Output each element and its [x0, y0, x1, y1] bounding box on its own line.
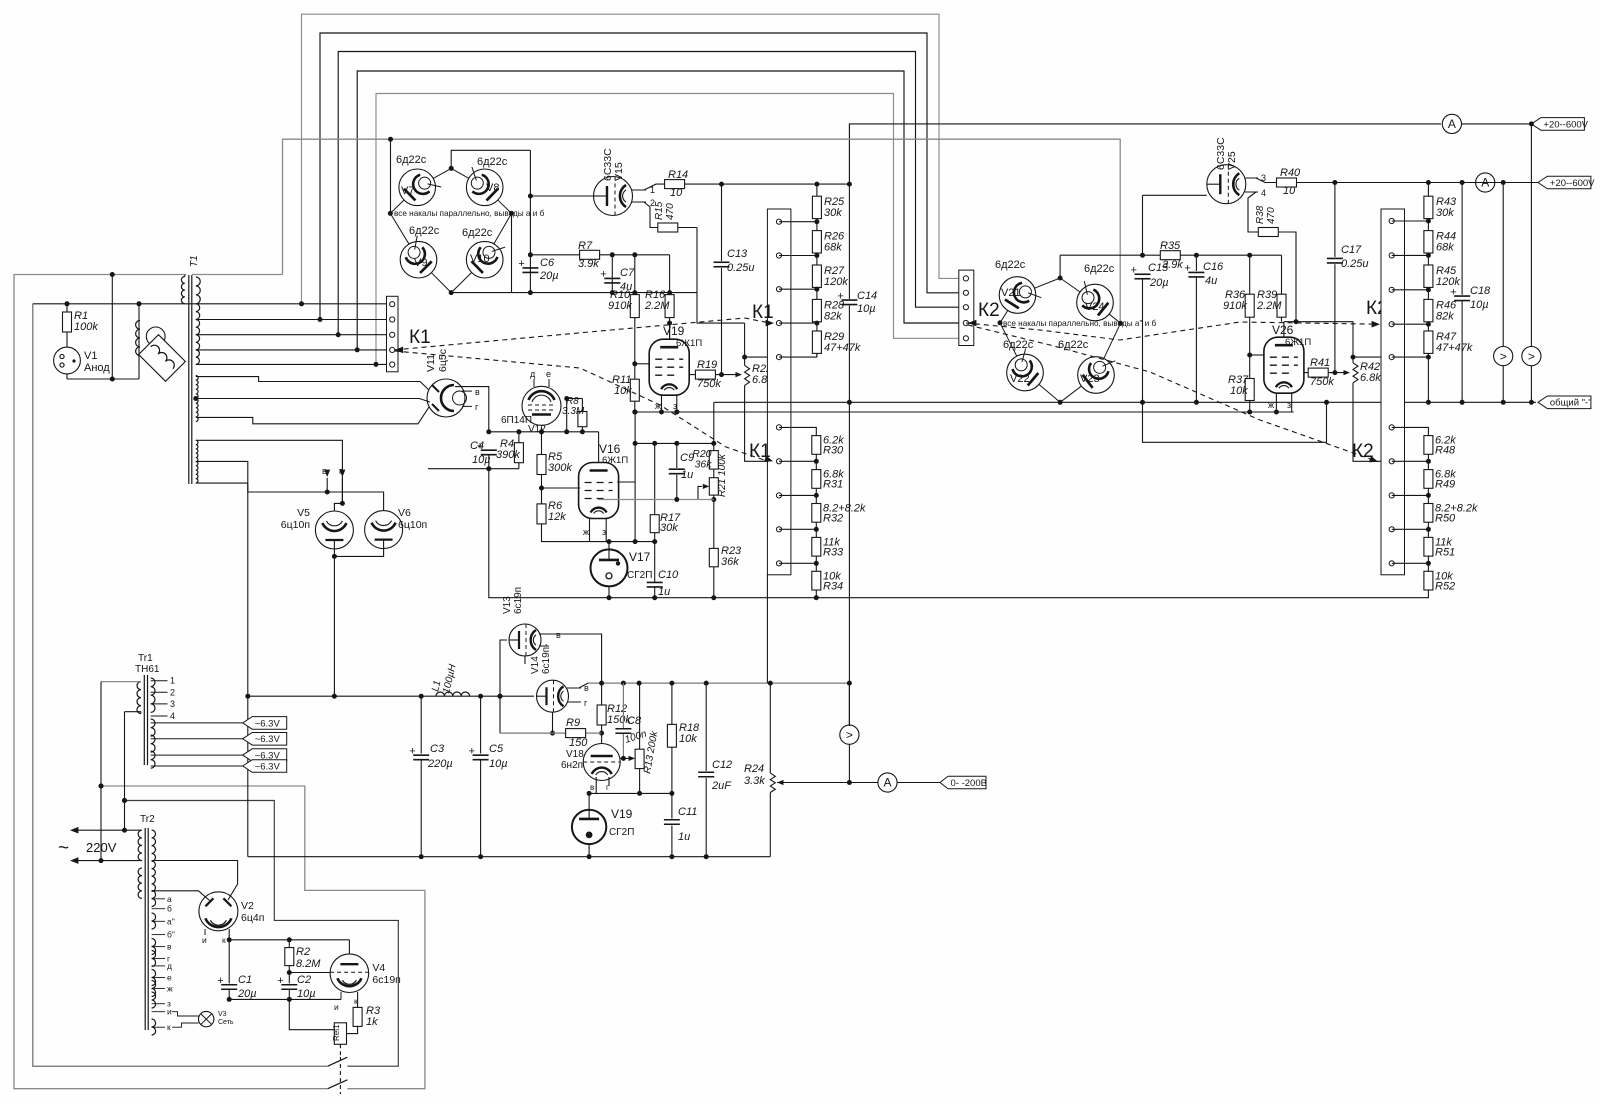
svg-text:>: > — [846, 728, 853, 742]
svg-text:>: > — [1528, 349, 1535, 363]
svg-text:8.2M: 8.2M — [296, 958, 321, 970]
label K2 lower — [1352, 441, 1374, 462]
svg-text:20µ: 20µ — [1149, 277, 1169, 289]
wire main bus 683 — [588, 681, 852, 686]
svg-text:6д22с: 6д22с — [995, 259, 1026, 271]
wire V15 cathode to R15 — [644, 202, 658, 228]
resistor R23 — [709, 545, 742, 600]
svg-text:R9: R9 — [566, 717, 580, 729]
resistor R10 — [608, 255, 639, 379]
wire V1 column — [99, 682, 104, 864]
wire V17 bottom — [607, 586, 612, 600]
wire ladder R25 top — [816, 184, 818, 196]
svg-text:+20--600V: +20--600V — [1550, 178, 1595, 189]
wire Tr1 tap 4 — [151, 711, 175, 721]
terminal strip K1 left — [387, 296, 399, 372]
node grid rail junction — [388, 137, 393, 214]
wire B+ rail to +20--600V — [849, 124, 1531, 184]
winding tap а — [152, 894, 172, 904]
wire Tr1 left drop — [122, 712, 127, 833]
svg-text:V15: V15 — [613, 162, 625, 181]
svg-text:C16: C16 — [1203, 261, 1224, 273]
svg-text:к: к — [167, 1022, 171, 1032]
svg-text:з: з — [673, 401, 677, 411]
resistor R5 — [537, 432, 572, 504]
winding tap б" — [152, 930, 175, 940]
node R34 bottom — [814, 595, 819, 600]
wire V16 pins — [583, 519, 609, 542]
wire K1 tap 3 — [779, 287, 819, 292]
svg-text:к: к — [354, 996, 358, 1006]
svg-text:V13: V13 — [502, 596, 513, 614]
svg-text:V5: V5 — [297, 507, 310, 519]
label K1 middle — [752, 302, 774, 323]
svg-text:T1: T1 — [189, 255, 200, 267]
flag +20-600V top — [1529, 118, 1589, 131]
winding tap е — [152, 973, 172, 983]
wire Tr1 tap 1 — [151, 676, 175, 686]
tube V6 — [365, 507, 428, 549]
wire heater rail 2 — [320, 33, 960, 320]
resistor R52 — [1424, 570, 1455, 597]
svg-text:A: A — [1481, 176, 1489, 190]
wire V16 top — [598, 432, 600, 463]
capacitor C8 — [615, 683, 648, 761]
wire lower bus — [248, 856, 771, 858]
wire V25 grid — [1140, 195, 1207, 257]
svg-text:Анод: Анод — [84, 362, 110, 374]
wire T1 lower tap b — [196, 461, 327, 492]
resistor R1 — [63, 304, 99, 348]
resistor R2 — [285, 940, 321, 984]
dashed relay K1 links — [395, 318, 774, 462]
svg-text:V18: V18 — [566, 749, 584, 760]
wire R14 out — [685, 182, 852, 187]
wire V15 grid — [528, 194, 594, 199]
svg-text:б": б" — [167, 930, 175, 940]
winding tap д — [152, 961, 172, 971]
capacitor C5 — [469, 694, 508, 860]
wire K2 lower tap 2 — [1392, 459, 1431, 464]
svg-text:4: 4 — [170, 711, 175, 721]
potentiometer R13 — [620, 729, 660, 774]
wire V2 cathode rail — [229, 937, 349, 954]
wire T1 tap 2 to K1 — [196, 317, 387, 322]
svg-text:10µ: 10µ — [857, 303, 876, 315]
svg-text:C4: C4 — [470, 440, 484, 452]
wire T1 tap 4 to K1 — [196, 347, 387, 352]
wire V5V6 tops — [322, 466, 384, 511]
wire V11 pins — [462, 387, 480, 412]
svg-text:ж: ж — [655, 401, 661, 411]
transformer T1 lower winding — [196, 440, 198, 483]
wire grid rail — [283, 139, 1121, 323]
capacitor C12 — [698, 683, 732, 859]
svg-text:в: в — [590, 783, 594, 792]
diode V10 — [462, 227, 505, 278]
svg-text:10k: 10k — [679, 733, 697, 745]
svg-text:C1: C1 — [238, 974, 252, 986]
resistor R39 — [1256, 255, 1286, 322]
wire V25 cathode to R38 — [1248, 192, 1258, 232]
svg-text:1u: 1u — [678, 831, 690, 843]
svg-text:+: + — [1184, 263, 1190, 275]
wire C15 bypass — [1143, 400, 1330, 443]
svg-text:C2: C2 — [297, 974, 311, 986]
resistor R35 — [1060, 240, 1281, 271]
wire V19 pins — [655, 395, 679, 415]
resistor R17 — [650, 441, 681, 542]
wire R13 top — [639, 683, 641, 749]
svg-text:6с19п: 6с19п — [372, 974, 400, 986]
wire ladder R43 top — [1427, 183, 1429, 197]
diode V23 — [1058, 339, 1115, 393]
svg-text:R2: R2 — [296, 946, 310, 958]
wire heater rail 1 — [302, 14, 960, 304]
resistor R18 — [667, 683, 700, 793]
svg-text:~: ~ — [58, 838, 69, 859]
svg-text:R14: R14 — [668, 169, 688, 181]
wire bridge top feed — [449, 150, 531, 171]
svg-text:6д22с: 6д22с — [1003, 339, 1034, 351]
wire K2 tap 4 — [1392, 322, 1431, 327]
resistor R45 — [1424, 265, 1460, 324]
svg-text:в: в — [167, 942, 172, 952]
winding tap з — [152, 999, 171, 1009]
svg-text:10: 10 — [1283, 185, 1296, 197]
wire V19 top — [669, 323, 671, 339]
tube V18 — [561, 733, 620, 780]
svg-text:10µ: 10µ — [297, 988, 316, 1000]
wire K1 row5 to R22 — [745, 356, 779, 358]
svg-text:R33: R33 — [823, 546, 844, 558]
svg-text:3.3k: 3.3k — [744, 775, 765, 787]
meter A1 — [1442, 114, 1461, 133]
lamp V3 — [199, 1011, 234, 1027]
svg-text:6ц10п: 6ц10п — [281, 519, 310, 531]
svg-text:C12: C12 — [712, 759, 732, 771]
wire V26 pins — [1268, 393, 1292, 412]
svg-text:R48: R48 — [1435, 445, 1456, 457]
capacitor C15 — [1131, 262, 1170, 402]
flag heater 2 — [151, 733, 287, 746]
wire right bridge top — [1059, 255, 1061, 278]
svg-text:36k: 36k — [721, 556, 739, 568]
svg-text:68k: 68k — [1436, 242, 1454, 254]
svg-text:V23: V23 — [1080, 373, 1100, 385]
tube V14 — [530, 644, 569, 736]
svg-text:910k: 910k — [1223, 300, 1247, 312]
svg-text:Сеть: Сеть — [218, 1019, 234, 1026]
wire screen bus — [635, 441, 716, 446]
rheostat R42 — [1294, 319, 1382, 461]
resistor R4 — [496, 432, 523, 463]
svg-text:47+47k: 47+47k — [824, 342, 861, 354]
wire L1 rail — [245, 694, 534, 699]
svg-text:+: + — [469, 745, 475, 757]
label bridge note — [394, 209, 545, 218]
wire R38 to V26 top — [1278, 232, 1296, 337]
tube V15 — [594, 148, 633, 216]
wire V11 to V12 — [455, 387, 489, 432]
transformer Tr1 heater windings — [151, 719, 155, 768]
svg-text:6д22с: 6д22с — [477, 156, 508, 168]
svg-text:V1: V1 — [84, 350, 97, 362]
svg-text:10k: 10k — [1230, 385, 1248, 397]
resistor R40 — [1277, 167, 1302, 197]
terminal strip K1 middle — [767, 209, 791, 575]
node bridge heater corners — [388, 211, 514, 295]
flag heater 4 — [151, 760, 287, 773]
svg-text:750k: 750k — [697, 378, 721, 390]
resistor R44 — [1424, 231, 1456, 290]
wire K1 tap 2 — [779, 253, 819, 258]
svg-text:а: а — [167, 894, 172, 904]
resistor R31 — [812, 469, 844, 504]
svg-text:910k: 910k — [608, 300, 632, 312]
wire V13 grid — [498, 640, 508, 733]
svg-text:6д22с: 6д22с — [396, 154, 427, 166]
resistor R47 — [1424, 331, 1473, 354]
capacitor C16 — [1184, 255, 1224, 405]
svg-text:6д22с: 6д22с — [409, 225, 440, 237]
resistor R51 — [1424, 536, 1455, 571]
svg-text:V24: V24 — [1085, 301, 1105, 313]
winding tap ж — [152, 983, 173, 993]
wire meter drops — [1503, 124, 1531, 402]
svg-text:Tr2: Tr2 — [140, 814, 155, 825]
svg-text:+: + — [600, 269, 606, 281]
wire heater rail 4 — [357, 71, 959, 350]
svg-text:6ц5с: 6ц5с — [437, 349, 449, 372]
resistor R38 — [1255, 205, 1278, 236]
svg-text:+: + — [1131, 265, 1137, 277]
svg-text:10: 10 — [670, 187, 683, 199]
wire V2 pins — [202, 929, 232, 945]
svg-text:~6.3V: ~6.3V — [255, 734, 281, 745]
wire K1 lower tap 4 — [779, 527, 819, 532]
node right bridge corners — [998, 276, 1124, 326]
svg-text:е: е — [546, 369, 551, 379]
capacitor C13 — [714, 184, 755, 375]
wire bridge diagonals — [390, 168, 511, 292]
wire R29 bottom to K1 — [779, 353, 817, 357]
tube V2 — [199, 892, 264, 931]
svg-text:4: 4 — [1261, 188, 1266, 198]
svg-text:6.8k: 6.8k — [1360, 372, 1381, 384]
tube V4 — [330, 954, 401, 993]
wire bridge right heater drop — [511, 213, 513, 292]
svg-text:0.25u: 0.25u — [727, 262, 755, 274]
svg-text:390k: 390k — [496, 449, 520, 461]
label K2 mid — [1366, 298, 1388, 319]
wire K2 lower tap 4 — [1392, 527, 1431, 532]
svg-text:470: 470 — [665, 203, 676, 220]
wire lamp V3 circuit — [172, 1012, 199, 1027]
wire T1 tap 5 to K1 — [196, 362, 387, 367]
svg-text:120k: 120k — [824, 276, 848, 288]
wire K1 lower tap 5 — [779, 561, 819, 566]
svg-text:V2: V2 — [241, 900, 254, 912]
tube V25 — [1207, 137, 1246, 204]
svg-text:Rel1: Rel1 — [332, 1024, 341, 1041]
wire inner relay loop — [33, 304, 399, 1066]
transformer T1 core — [189, 255, 200, 484]
svg-text:+: + — [277, 975, 283, 987]
svg-text:6д22с: 6д22с — [1058, 339, 1089, 351]
svg-text:C15: C15 — [1148, 262, 1169, 274]
wire outer mains loop — [14, 275, 425, 1089]
transformer Tr1 core — [144, 675, 147, 765]
wire obshiy left end — [713, 402, 715, 443]
svg-text:в: в — [556, 630, 561, 640]
winding tap и — [152, 1007, 172, 1017]
resistor R11 — [612, 374, 639, 415]
svg-text:R21 100k: R21 100k — [717, 453, 728, 497]
svg-text:82k: 82k — [1436, 310, 1454, 322]
wire T1 lower tap c — [196, 482, 248, 484]
resistor R14 — [665, 169, 689, 199]
svg-text:К1: К1 — [409, 327, 431, 348]
resistor R12 — [597, 703, 631, 736]
svg-text:0- -200В: 0- -200В — [951, 778, 987, 789]
transformer Tr1 primary — [101, 682, 141, 714]
resistor R50 — [1424, 503, 1478, 538]
svg-text:R52: R52 — [1435, 580, 1455, 592]
wire K2 tap 1 — [1392, 219, 1431, 224]
resistor R16 — [644, 255, 674, 340]
terminal strip K2 right — [1381, 209, 1405, 575]
svg-text:R38: R38 — [1255, 205, 1266, 224]
resistor R29 — [812, 331, 860, 354]
svg-text:10µ: 10µ — [489, 758, 508, 770]
diode V22 — [1003, 339, 1043, 391]
svg-text:C18: C18 — [1470, 285, 1491, 297]
svg-text:V11: V11 — [425, 354, 437, 372]
svg-text:120k: 120k — [1436, 276, 1460, 288]
svg-text:C11: C11 — [678, 806, 697, 818]
label right bridge note — [1003, 319, 1156, 328]
svg-text:30k: 30k — [1436, 207, 1454, 219]
wire 220V bottom — [70, 857, 141, 864]
resistor R30 — [812, 435, 844, 470]
svg-text:47+47k: 47+47k — [1436, 342, 1473, 354]
wire R13 col — [637, 769, 642, 796]
svg-text:R40: R40 — [1280, 167, 1301, 179]
svg-text:R32: R32 — [823, 513, 843, 525]
svg-text:~6.3V: ~6.3V — [255, 718, 281, 729]
svg-text:2: 2 — [170, 687, 175, 697]
wire R47 bottom — [1392, 353, 1431, 404]
wire heater rail 5 — [376, 94, 960, 365]
tube V16 6Ж1П — [579, 442, 629, 519]
wire K2 row6 to R48 — [1392, 427, 1429, 435]
svg-text:V19: V19 — [611, 807, 633, 821]
resistor R3 — [347, 1005, 381, 1034]
svg-text:C13: C13 — [727, 248, 748, 260]
meter A2 — [1476, 173, 1495, 192]
svg-text:4u: 4u — [1205, 275, 1217, 287]
lamp V1 — [54, 347, 111, 379]
svg-text:R41: R41 — [1310, 357, 1330, 369]
wire V16 anode side — [617, 410, 638, 542]
wire V19 grid — [635, 363, 649, 365]
svg-text:з: з — [1287, 400, 1291, 410]
svg-text:V16: V16 — [599, 442, 621, 456]
svg-text:2.2M: 2.2M — [644, 300, 670, 312]
svg-text:V17: V17 — [629, 550, 651, 564]
winding tap в — [152, 942, 172, 952]
svg-text:6д22с: 6д22с — [1084, 263, 1115, 275]
svg-text:12k: 12k — [548, 511, 566, 523]
capacitor C3 — [409, 696, 453, 859]
svg-text:+: + — [409, 745, 415, 757]
svg-text:6Ж1П: 6Ж1П — [602, 455, 628, 466]
svg-text:10µ: 10µ — [1470, 299, 1489, 311]
svg-text:220V: 220V — [86, 840, 117, 855]
wire V5V6 cathode drop — [333, 556, 335, 696]
svg-text:д: д — [530, 369, 536, 379]
winding tap г — [152, 954, 171, 964]
svg-text:C7: C7 — [620, 267, 635, 279]
wire V5V6 cathodes — [332, 540, 384, 559]
svg-text:1k: 1k — [366, 1016, 378, 1028]
svg-text:20µ: 20µ — [237, 988, 257, 1000]
wire V19 anode out — [689, 374, 695, 376]
diode V24 — [1077, 263, 1115, 321]
tube V19 SG2P — [572, 793, 634, 859]
svg-text:в: в — [322, 466, 327, 476]
svg-text:6с19п-: 6с19п- — [541, 644, 552, 674]
capacitor C6 — [518, 257, 558, 282]
transformer Tr2 core — [145, 828, 148, 1030]
wire common rail — [714, 400, 1536, 405]
svg-text:V6: V6 — [398, 507, 411, 519]
wire T1 primary bottom link — [110, 272, 115, 379]
svg-text:C14: C14 — [857, 290, 877, 302]
svg-text:+: + — [518, 258, 524, 270]
svg-text:V26: V26 — [1272, 323, 1294, 337]
resistor R20 — [692, 443, 718, 477]
svg-text:A: A — [1448, 117, 1456, 131]
resistor R41 — [1308, 357, 1334, 388]
resistor R7 — [530, 240, 669, 270]
svg-text:3.3M: 3.3M — [562, 406, 585, 417]
wire V15 pins — [632, 184, 665, 208]
svg-text:220µ: 220µ — [427, 758, 453, 770]
wire T1 anode tap lower — [196, 407, 429, 424]
wire T1 tap 1 to K1 — [196, 301, 387, 306]
svg-text:д: д — [167, 961, 172, 971]
svg-text:V12: V12 — [528, 424, 546, 435]
wire K1 row6 to R30 — [779, 427, 816, 435]
wire C1C2 bottom rail — [229, 998, 341, 1000]
wire T1 anode tap upper — [196, 377, 429, 390]
svg-text:R34: R34 — [823, 580, 843, 592]
wire Tr1 tap 2 — [151, 687, 175, 697]
wire T1 tap 3 to K1 — [196, 332, 387, 337]
wire C4 drop — [489, 469, 1429, 598]
resistor R25 — [812, 196, 845, 255]
svg-text:20µ: 20µ — [539, 270, 559, 282]
wire R15 to V19 top — [667, 228, 745, 326]
svg-text:К2: К2 — [978, 300, 1000, 321]
svg-text:1u: 1u — [681, 469, 693, 481]
diode V9 — [400, 225, 440, 278]
svg-text:C3: C3 — [430, 743, 445, 755]
svg-text:36k: 36k — [695, 459, 713, 471]
wire T1 anode center tap — [196, 399, 430, 403]
